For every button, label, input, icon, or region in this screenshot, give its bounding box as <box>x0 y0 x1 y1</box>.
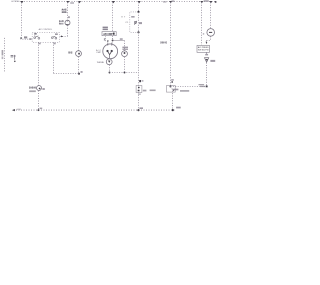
wire column D full height <box>138 2 140 110</box>
tick on column F <box>203 33 204 34</box>
label above wire C-H <box>120 38 123 40</box>
node arrow at lower bend <box>206 86 208 88</box>
label right of ground end <box>176 107 181 109</box>
svg-text:THERMAL: THERMAL <box>97 61 105 64</box>
switch SW2 right contacts <box>51 37 53 39</box>
label above splice S2 (2 rows) <box>122 47 128 48</box>
label below connector box D <box>138 94 141 95</box>
connector box C2 on column D <box>136 86 142 93</box>
wire control head right pin down <box>53 42 55 73</box>
svg-text:SW 300 PSI: SW 300 PSI <box>198 50 209 52</box>
wire E junction to pressure branch <box>171 86 207 88</box>
label right of splice S206 <box>42 88 44 90</box>
A/C compressor clutch coil circle <box>103 44 118 59</box>
svg-text:206: 206 <box>29 87 36 90</box>
wire fuse column lower <box>67 25 69 36</box>
label right of tap E <box>171 0 174 2</box>
label above junction 38.5 <box>40 108 43 110</box>
label left of column E <box>160 42 167 44</box>
wire column B upper <box>78 2 80 51</box>
svg-text:CMP: CMP <box>96 52 102 54</box>
switch SW1 left contacts <box>34 37 36 39</box>
node arrow below label box <box>107 40 109 42</box>
check valve triangle <box>205 58 209 63</box>
pressure sensor circle <box>207 29 215 37</box>
node mark on E above junction <box>171 81 173 82</box>
node rail tap F <box>200 1 203 3</box>
wire column H upper <box>124 41 126 51</box>
label right of junction B <box>81 71 83 73</box>
pin label below right contact <box>54 43 56 45</box>
label under wire E (right) <box>180 90 189 92</box>
svg-text:A/C PRESS: A/C PRESS <box>198 46 209 49</box>
label near tap D <box>163 1 166 2</box>
wire A into control head <box>22 38 32 40</box>
node arrow inside connector box <box>173 89 175 91</box>
wire thermal limiter to splice row <box>109 65 111 72</box>
node junction C below label box <box>112 39 114 41</box>
node junction ground rail right end <box>172 109 174 111</box>
label right of connector box D <box>143 90 147 92</box>
node rail tap A <box>20 1 23 4</box>
relay pin 87 dot <box>137 11 139 13</box>
label near fuse top <box>70 2 74 3</box>
label above relay box C (2 rows) <box>103 27 108 29</box>
wire fuse column upper <box>67 2 69 20</box>
node arrow at A bend <box>20 37 22 39</box>
A/C control head box (dashed) <box>32 33 59 43</box>
svg-text:A/C CONTROL: A/C CONTROL <box>39 28 53 31</box>
node junction clutch return <box>109 72 111 74</box>
wire column F upper <box>201 2 203 45</box>
svg-text:HOT AT ALL: HOT AT ALL <box>11 0 20 3</box>
connector stub glyph <box>11 54 14 57</box>
label right of triangle <box>210 60 215 62</box>
fuse F1 circle <box>65 20 70 25</box>
node rail right end <box>215 1 217 3</box>
splice S2 circle on column H <box>122 51 128 57</box>
wire control head to junction B <box>54 73 79 75</box>
label above lower bend (2 rows) <box>199 84 205 85</box>
wire triangle to bend <box>206 63 208 86</box>
node arrow into control head <box>61 36 63 38</box>
wire column C upper <box>112 2 114 31</box>
label between taps F and G <box>204 0 209 2</box>
pin label below left contact <box>38 43 40 45</box>
label right of E above junction <box>171 79 174 80</box>
svg-text:S2: S2 <box>68 52 73 55</box>
wire column E upper <box>170 2 172 86</box>
wire fuse to control head <box>60 36 68 38</box>
node rail tap G <box>209 1 212 3</box>
label A/C fuse (2 rows) <box>62 9 67 11</box>
pin tick below label box left <box>105 36 107 42</box>
wire column A vertical <box>21 2 23 38</box>
wire control head left pin down <box>38 42 40 85</box>
label under wire E (left) <box>173 89 178 91</box>
wire clutch return to column D <box>110 72 139 74</box>
label left of A entry <box>29 38 31 40</box>
svg-text:A/C CMP: A/C CMP <box>103 33 113 36</box>
connector box at E junction <box>167 86 176 93</box>
svg-text:2B C: 2B C <box>160 43 167 45</box>
relay pin 85 dot <box>137 31 139 33</box>
label C1 at A entry <box>24 36 27 38</box>
node rail tap B <box>78 1 81 3</box>
left rail short segment <box>4 38 6 72</box>
label on ground branch <box>29 90 36 92</box>
label left of splice S1 <box>68 52 72 54</box>
wire splice S206 to ground rail <box>38 91 40 110</box>
node junction B at clutch feed <box>78 73 80 75</box>
ground G101 arrow <box>12 109 15 111</box>
node rail tap fuse F1 <box>66 1 69 3</box>
label above D ground junction <box>140 107 144 109</box>
clutch pin ticks <box>107 43 109 46</box>
node arrow at bend <box>206 42 208 44</box>
wire bend into switch box <box>207 41 211 46</box>
label right of relay contact <box>139 22 142 24</box>
svg-text:10A: 10A <box>62 11 67 14</box>
node rail tap D <box>138 1 141 3</box>
wire pressure sensor down <box>210 36 212 40</box>
relay contact glyph <box>134 21 136 23</box>
node rail tap C <box>112 1 115 3</box>
connector label box U2 <box>102 32 116 36</box>
wire power rail (dashed, top) <box>22 1 217 3</box>
pressure switch box <box>197 45 210 52</box>
label fuse rating (2 rows) <box>59 21 63 23</box>
label inside relay <box>131 16 134 18</box>
splice S206 circle <box>37 86 42 91</box>
label S206 <box>29 87 36 89</box>
thermal limiter circle below clutch <box>106 59 112 65</box>
clutch coil internals <box>106 50 108 52</box>
pin tick right of fuse wire <box>68 16 70 18</box>
splice S1 circle on column B <box>76 51 82 57</box>
relay U1 bracket <box>130 12 136 32</box>
wire column H lower <box>124 57 126 73</box>
wire E down to ground rail <box>171 87 173 110</box>
wire column C through label box <box>112 36 114 44</box>
wire column G upper <box>210 2 212 28</box>
ground rail <box>14 109 175 111</box>
vertical label beside left rail <box>2 50 4 56</box>
wire junction C to column H <box>113 40 125 42</box>
node junction ground rail at column D <box>137 109 139 111</box>
node junction E <box>170 86 172 88</box>
node dot below stub <box>14 61 16 63</box>
pin tick below pressure switch <box>206 52 208 54</box>
wire column B lower <box>78 57 80 74</box>
node junction ground rail at column 38.9 <box>38 109 40 111</box>
node junction at column H return <box>124 72 126 74</box>
label above connector on column D <box>139 80 141 82</box>
node rail tap E <box>169 1 172 3</box>
